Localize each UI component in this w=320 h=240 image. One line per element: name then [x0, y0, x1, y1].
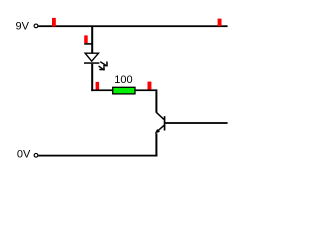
LED D1	[84, 53, 108, 70]
wire LED branch upper	[91, 27, 93, 53]
terminal 0V	[34, 153, 38, 157]
wire LED lower lead	[91, 64, 93, 91]
svg-text:9V: 9V	[16, 21, 30, 33]
voltage bar B4 after LED	[96, 82, 100, 90]
wire LED to resistor	[91, 89, 112, 91]
wire resistor to collector corner	[136, 89, 158, 112]
terminal 9V	[34, 24, 38, 28]
wire emitter to bottom rail	[155, 133, 157, 156]
wire bottom rail	[38, 155, 157, 157]
voltage bar B1 on top rail left	[52, 18, 56, 27]
svg-text:0V: 0V	[17, 149, 31, 161]
voltage bar B3 on LED branch	[84, 35, 91, 44]
voltage bar B2 on top rail right	[218, 19, 222, 27]
resistor R1	[113, 87, 135, 94]
voltage bar B5 after resistor	[148, 82, 152, 90]
svg-text:100: 100	[114, 74, 132, 86]
wire top rail	[38, 25, 227, 27]
transistor Q1	[155, 112, 166, 133]
wire base lead	[165, 122, 228, 124]
